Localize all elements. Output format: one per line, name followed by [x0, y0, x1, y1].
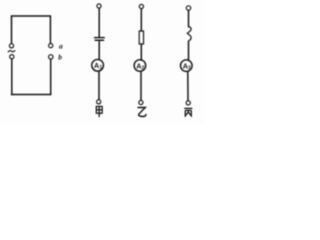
wire: [140, 72, 142, 100]
wire: bottom horizontal of source loop: [12, 94, 51, 96]
wire: [98, 72, 100, 100]
label A1: [94, 61, 103, 71]
bottom terminal: [139, 100, 143, 104]
wire: right vertical lower: [50, 59, 52, 94]
AC source terminal (top): [9, 44, 13, 48]
node b terminal: [49, 55, 53, 59]
wire: [188, 41, 190, 60]
hanzi yi (乙) drawn with strokes: [138, 108, 146, 117]
ammeter A1: [92, 59, 104, 71]
text labels: [58, 41, 191, 71]
wire: left vertical upper: [11, 16, 13, 43]
branch yi: top terminal: [139, 4, 143, 8]
svg-text:A: A: [94, 61, 99, 70]
ammeter A3: [181, 60, 193, 72]
svg-text:2: 2: [142, 65, 145, 71]
wire: [98, 41, 100, 60]
wire: top horizontal of source loop: [12, 15, 51, 17]
bottom terminal: [97, 100, 101, 104]
node a terminal: [49, 44, 53, 48]
wire: [140, 9, 142, 31]
hanzi bing (丙) drawn with strokes: [184, 108, 192, 117]
capacitor C plates: [95, 38, 105, 41]
label A3: [183, 61, 191, 71]
resistor R box: [139, 31, 143, 44]
wire: [187, 72, 189, 101]
branch bing: top terminal: [186, 6, 190, 10]
svg-text:3: 3: [188, 66, 191, 72]
AC tilde symbol: [8, 51, 15, 52]
AC source terminal (bottom): [10, 55, 14, 59]
hanzi jia (甲) drawn with strokes: [96, 106, 102, 117]
svg-text:a: a: [59, 41, 63, 50]
label A2: [136, 61, 144, 71]
inductor L coil: [187, 27, 191, 41]
wire: right vertical upper: [49, 16, 51, 43]
branch jia: top terminal: [97, 4, 101, 8]
wire: [188, 10, 190, 27]
wire: left vertical lower: [11, 59, 13, 95]
svg-text:1: 1: [100, 65, 103, 71]
ammeter A2: [134, 60, 146, 72]
svg-text:b: b: [58, 53, 62, 62]
bottom terminal: [186, 101, 190, 105]
wire: [140, 44, 142, 60]
wire: [98, 8, 100, 37]
